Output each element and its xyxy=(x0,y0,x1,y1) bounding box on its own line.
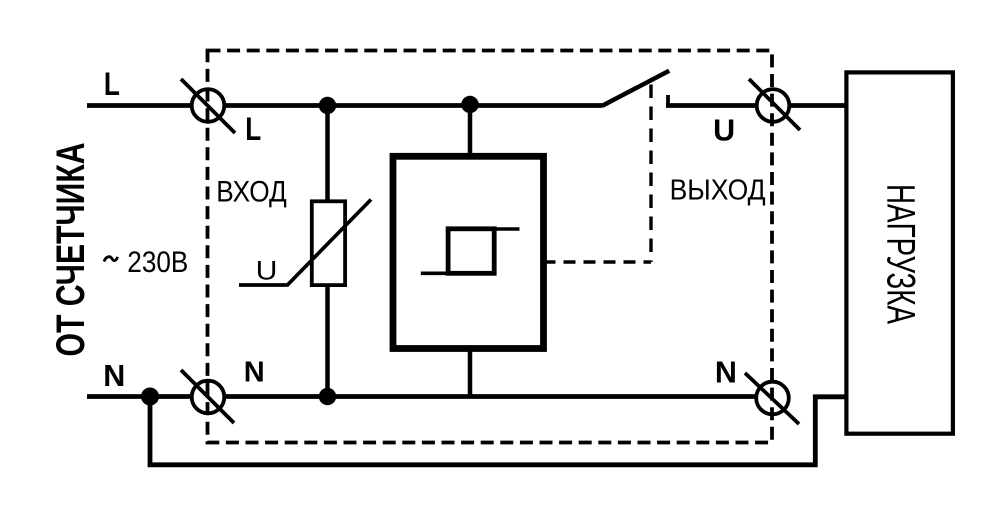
slash on terminal N output xyxy=(745,373,799,424)
wire from output terminal U to load xyxy=(773,103,847,108)
wire N inside device xyxy=(208,394,773,399)
wire L from input terminal to switch xyxy=(208,103,602,108)
control link relay to switch dashed xyxy=(544,260,652,263)
varistor diagonal with U foot xyxy=(239,200,371,286)
terminal L input xyxy=(192,89,225,122)
svg-text:U: U xyxy=(713,113,735,147)
device boundary dashed box xyxy=(208,51,773,443)
varistor body xyxy=(312,201,345,285)
relay top lead xyxy=(468,106,473,158)
junction N/bypass xyxy=(141,388,159,406)
load box НАГРУЗКА xyxy=(846,72,953,433)
svg-text:N: N xyxy=(244,356,265,388)
relay box xyxy=(393,156,544,348)
terminal N input xyxy=(192,381,225,414)
svg-text:230В: 230В xyxy=(127,246,188,279)
svg-text:U: U xyxy=(256,256,278,286)
label ~ (AC sign) xyxy=(104,257,118,262)
wire L from meter to input terminal xyxy=(87,103,208,108)
relay hysteresis symbol xyxy=(421,229,520,273)
svg-text:L: L xyxy=(245,111,261,147)
switch contact blade (open) xyxy=(602,71,669,106)
slash on terminal L input xyxy=(181,79,235,133)
junction N/varistor xyxy=(319,388,336,405)
svg-text:ОТ СЧЕТЧИКА: ОТ СЧЕТЧИКА xyxy=(49,143,93,357)
svg-text:L: L xyxy=(104,66,120,102)
wire N bypass from junction to load xyxy=(150,397,847,465)
slash on terminal N input xyxy=(181,370,234,423)
relay bottom lead xyxy=(468,348,473,397)
terminal N output xyxy=(756,382,789,415)
wire from switch to output terminal U xyxy=(666,103,773,108)
svg-text:ВЫХОД: ВЫХОД xyxy=(670,174,766,206)
svg-text:N: N xyxy=(103,359,125,393)
terminal U output xyxy=(757,89,790,122)
varistor bottom lead xyxy=(325,287,330,397)
varistor top lead xyxy=(325,106,330,202)
switch fixed contact tick xyxy=(666,95,670,106)
junction L/relay xyxy=(461,96,478,113)
slash on terminal U output xyxy=(749,79,800,130)
junction L/varistor xyxy=(319,97,336,114)
wire N from meter to input terminal N xyxy=(87,394,208,399)
svg-text:НАГРУЗКА: НАГРУЗКА xyxy=(879,184,923,324)
svg-text:N: N xyxy=(715,355,737,389)
svg-text:ВХОД: ВХОД xyxy=(216,175,286,208)
